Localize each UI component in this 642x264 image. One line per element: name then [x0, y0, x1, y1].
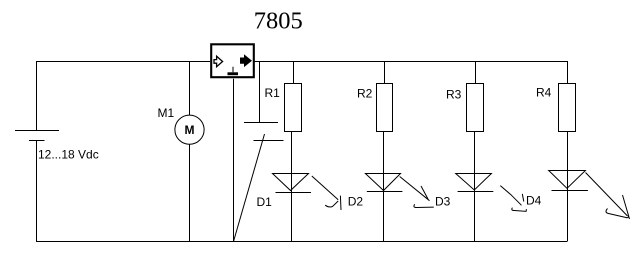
svg-text:M: M — [185, 123, 195, 137]
svg-text:12...18 Vdc: 12...18 Vdc — [38, 148, 99, 162]
svg-text:R4: R4 — [536, 86, 552, 100]
D1 emission arrow — [312, 176, 341, 210]
svg-text:D4: D4 — [526, 194, 542, 208]
wire battery - to bottom rail — [36, 141, 38, 242]
svg-text:7805: 7805 — [254, 8, 303, 35]
op-amp U1 7805 regulator box — [211, 44, 254, 77]
wire R2 to D2 and bottom rail — [383, 132, 385, 242]
capacitor C1 plate bottom — [254, 140, 284, 142]
battery B1 plate + — [15, 130, 59, 132]
LED D4 triangle — [549, 171, 586, 189]
LED D3 cathode bar — [458, 191, 494, 193]
resistor R1 — [285, 84, 302, 132]
D2 emission arrow — [400, 177, 434, 208]
wire output rail to R3 — [475, 62, 477, 84]
LED D3 triangle — [456, 174, 492, 191]
svg-text:R3: R3 — [446, 88, 462, 102]
LED D2 triangle — [365, 174, 400, 191]
resistor R3 — [467, 84, 484, 132]
motor M1 body — [175, 115, 204, 144]
wire output rail (regulator output to R4 branch) — [255, 62, 568, 85]
wire top rail (battery + to regulator input) — [37, 62, 211, 131]
wire top rail to motor M1 — [189, 62, 191, 116]
wire R4 to D4 and bottom rail — [567, 132, 569, 242]
D4 emission arrow — [586, 173, 630, 220]
svg-text:D2: D2 — [348, 195, 364, 209]
LED D1 triangle — [273, 174, 309, 191]
LED D4 cathode bar — [552, 190, 588, 192]
capacitor C1 plate top — [244, 122, 278, 124]
wire output rail to capacitor C1 — [259, 62, 261, 123]
U1 ground symbol stem — [232, 67, 234, 73]
U1 ground symbol bar — [228, 72, 239, 75]
U1 output pin arrow (filled) — [241, 55, 252, 66]
wire R3 to D3 and bottom rail — [474, 132, 476, 242]
battery B1 plate - — [29, 140, 45, 142]
svg-text:R2: R2 — [357, 87, 373, 101]
wire output rail to R2 — [384, 62, 386, 84]
wire R1 to D1 and bottom rail — [291, 132, 293, 242]
wire output rail to R1 — [293, 62, 295, 84]
wire U1 ground pin to bottom rail — [233, 79, 235, 242]
D3 emission arrow — [500, 186, 526, 212]
svg-text:D3: D3 — [435, 195, 451, 209]
LED D1 cathode bar — [276, 192, 312, 194]
resistor R4 — [559, 84, 576, 132]
svg-text:M1: M1 — [158, 106, 175, 120]
svg-text:R1: R1 — [265, 86, 281, 100]
svg-text:D1: D1 — [257, 195, 273, 209]
resistor R2 — [377, 84, 393, 132]
LED D2 cathode bar — [367, 191, 403, 193]
wire motor M1 to bottom rail — [189, 144, 191, 241]
U1 input pin arrow (hollow) — [214, 56, 223, 66]
wire bottom rail (ground return) — [36, 241, 567, 243]
wire capacitor C1 to bottom rail (diagonal) — [234, 134, 265, 242]
